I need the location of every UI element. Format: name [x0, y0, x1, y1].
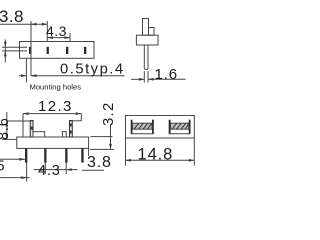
left tab bar	[30, 121, 33, 137]
14.8 extension right	[193, 138, 195, 166]
dim 4.3 line	[47, 37, 70, 39]
bottom-left lower dim line	[0, 177, 30, 179]
1.6 arrow left-pointing	[148, 78, 154, 81]
14.8 dim line	[126, 159, 195, 161]
right slot hatched bar	[171, 123, 189, 129]
3.2 extension bottom	[90, 148, 114, 150]
bottom-left upper arrow	[20, 158, 26, 161]
12.3 dim line	[23, 113, 81, 115]
svg-text:3.2: 3.2	[101, 102, 117, 126]
1.6 dim line left segment	[131, 78, 144, 80]
pin 1	[25, 148, 27, 162]
bottom-left pin dim line upper	[0, 158, 25, 160]
3.2 arrow down	[109, 144, 112, 150]
pin 4	[81, 148, 83, 162]
left slot post R	[152, 120, 154, 134]
mounting hole slot 1	[29, 47, 31, 54]
1.6 arrow right-pointing	[139, 78, 145, 81]
left small vertical dimension line	[4, 40, 6, 63]
14.8 arrow right	[189, 159, 195, 162]
extension line upper for 0.5 dim	[2, 46, 27, 48]
pin 2	[44, 148, 46, 162]
4.3 arrow left-pointing	[66, 168, 72, 171]
12.3 arrow left	[23, 112, 29, 115]
switch body outline (side view)	[20, 42, 95, 59]
12.3 extension left	[22, 114, 24, 137]
3.2 extension top	[90, 136, 112, 138]
left dim arrow up	[5, 121, 8, 127]
tab top extension line to right	[72, 120, 81, 122]
left slot bottom line	[131, 133, 154, 135]
left 8.6 extension top (tab top to left)	[7, 120, 30, 122]
left slot post L	[131, 120, 133, 134]
svg-text:4.3: 4.3	[38, 163, 61, 179]
mounting hole slot 2	[47, 47, 49, 54]
left dim arrow down	[5, 134, 8, 140]
right tab bar	[70, 121, 73, 137]
3.8 underline	[82, 169, 104, 171]
extension vertical below body x26.4	[25, 58, 27, 82]
14.8 extension left	[125, 138, 127, 166]
right slot bottom line	[169, 133, 191, 135]
svg-text:12.3: 12.3	[38, 98, 73, 115]
dim 3.8 arrow left	[31, 23, 37, 26]
1.6 dim line right segment	[148, 78, 186, 80]
knob side step	[149, 28, 155, 36]
left tab foot	[33, 132, 45, 137]
0.5 typ leader line left part	[19, 75, 26, 77]
arrow up to 50.9	[4, 51, 7, 57]
0.5 arrow pointing right	[21, 74, 27, 77]
svg-text:5: 5	[0, 159, 5, 175]
pin1 extension line down	[26, 162, 28, 181]
extension vertical x70	[69, 33, 71, 42]
right slot post R	[189, 120, 191, 134]
14.8 arrow left	[126, 159, 132, 162]
dim 3.8 line	[0, 23, 47, 25]
svg-text:4.3: 4.3	[46, 23, 67, 39]
svg-text:3.8: 3.8	[87, 154, 112, 171]
1.6 extension left	[143, 71, 145, 83]
end view body	[136, 35, 158, 45]
left slot hatched bar	[133, 123, 153, 129]
left 8.6 dim vertical	[6, 112, 8, 139]
dim 3.8 arrow right	[42, 23, 48, 26]
arrow down to 47.3	[4, 42, 7, 48]
4.3 arrow right-pointing	[40, 168, 46, 171]
extension line lower for 0.5 dim	[2, 50, 27, 52]
top view body	[126, 116, 195, 139]
right slot post L	[169, 120, 171, 134]
actuator knob	[143, 19, 149, 36]
svg-text:8.6: 8.6	[0, 117, 12, 140]
svg-text:0.5typ.4: 0.5typ.4	[60, 61, 125, 77]
pin 3	[65, 148, 67, 162]
dim 4.3 arrow left	[47, 36, 53, 39]
4.3 extension right	[65, 163, 67, 175]
dim 4.3 arrow right	[65, 36, 71, 39]
front body	[17, 137, 89, 148]
mounting hole slot 4	[84, 47, 86, 54]
1.6 extension right	[147, 71, 149, 83]
0.5 arrow pointing left	[31, 74, 37, 77]
12.3 extension right	[80, 114, 82, 121]
4.3 dim line	[34, 169, 78, 171]
pin (end view)	[144, 45, 148, 70]
4.3 extension left	[44, 163, 46, 175]
svg-text:1.6: 1.6	[155, 66, 179, 83]
right tab foot	[62, 132, 66, 137]
12.3 arrow right	[76, 112, 82, 115]
svg-text:3.8: 3.8	[0, 7, 24, 26]
left 8.6 extension bottom	[2, 138, 17, 140]
svg-text:Mounting holes: Mounting holes	[30, 82, 82, 91]
svg-text:14.8: 14.8	[138, 146, 174, 164]
extension vertical x31 through body	[30, 21, 32, 76]
extension vertical x47.3	[46, 21, 48, 42]
bottom-left lower arrow	[21, 176, 27, 179]
3.2 dim vertical	[110, 125, 112, 149]
0.5 typ leader line right part	[31, 75, 125, 77]
mounting hole slot 3	[66, 47, 68, 54]
3.8 short vertical from body corner	[88, 148, 90, 156]
